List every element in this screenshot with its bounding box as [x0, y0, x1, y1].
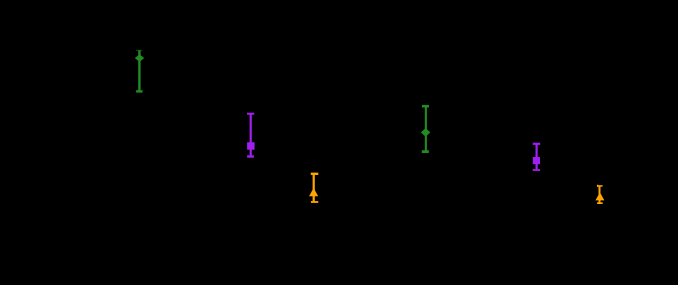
wire: error bar line: [138, 50, 140, 91]
bottom cap: [422, 150, 429, 153]
diamond marker: [135, 54, 144, 62]
series A point 1 (green diamond, group 1): [135, 50, 144, 93]
series A point 2 (green diamond, group 2): [421, 105, 430, 153]
bottom cap: [597, 202, 603, 204]
top cap left end knob: [597, 185, 598, 187]
series B point 1 (purple square, group 1): [247, 113, 255, 158]
square marker: [533, 157, 540, 164]
triangle marker: [595, 192, 604, 200]
square marker: [247, 142, 255, 149]
error bar line: [536, 144, 538, 170]
bottom cap: [136, 90, 143, 92]
triangle marker: [309, 188, 318, 196]
series C point 1 (orange triangle, group 1): [309, 173, 318, 203]
bottom cap: [311, 201, 318, 203]
top cap (faint): [136, 50, 143, 51]
error bar line: [425, 106, 427, 151]
top cap: [533, 143, 540, 145]
top cap: [597, 185, 603, 187]
top cap: [311, 173, 319, 175]
series B point 2 (purple square, group 2): [533, 143, 541, 171]
error bar line: [313, 174, 315, 202]
bottom cap: [533, 169, 540, 171]
series C point 2 (orange triangle, group 2): [595, 185, 604, 204]
bottom cap: [247, 155, 254, 157]
top cap: [422, 105, 429, 108]
error bar line: [599, 186, 601, 203]
error bar line: [250, 114, 252, 157]
top cap: [247, 113, 254, 115]
diamond marker: [421, 128, 430, 137]
